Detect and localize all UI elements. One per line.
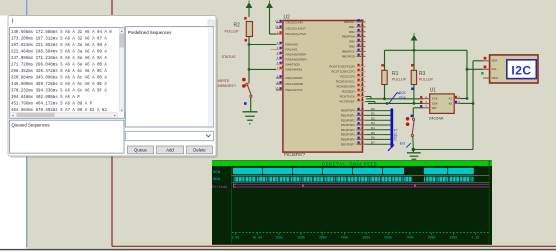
svg-text:24: 24 (361, 88, 365, 92)
svg-text:RD1/PSP1: RD1/PSP1 (341, 114, 355, 118)
svg-text:SCK: SCK (432, 97, 438, 101)
svg-text:SDA: SDA (492, 59, 498, 63)
svg-text:34: 34 (361, 23, 365, 27)
svg-text:RC5/SDO: RC5/SDO (342, 90, 356, 94)
svg-text:17: 17 (361, 73, 365, 77)
svg-text:RB4: RB4 (349, 40, 355, 44)
svg-text:RC4/SDI/SDA: RC4/SDI/SDA (337, 85, 355, 89)
svg-text:98.0m: 98.0m (253, 236, 263, 240)
svg-text:149.568ms 172.688ms S A6 A 32: 149.568ms 172.688ms S A6 A 32 A6 A 04 A … (11, 31, 112, 35)
svg-text:30: 30 (361, 141, 365, 145)
svg-text:RA3/AN3/VREF+: RA3/AN3/VREF+ (286, 58, 309, 62)
svg-text:RD0/PSP0: RD0/PSP0 (341, 109, 355, 113)
svg-text:D4: D4 (371, 126, 375, 130)
svg-text:26: 26 (361, 98, 365, 102)
svg-text:25: 25 (361, 93, 365, 97)
svg-text:Queue: Queue (134, 147, 148, 152)
svg-text:RA4/T0CKI: RA4/T0CKI (286, 63, 301, 67)
svg-text:▾: ▾ (121, 108, 123, 112)
svg-text:OSC2/CLKOUT: OSC2/CLKOUT (286, 26, 307, 30)
svg-text:598m: 598m (362, 236, 370, 240)
svg-text:698m: 698m (384, 236, 392, 240)
svg-text:16: 16 (361, 68, 365, 72)
svg-text:PD[0..7]: PD[0..7] (394, 129, 398, 141)
svg-text:Add: Add (166, 147, 174, 152)
svg-text:RD2/PSP2: RD2/PSP2 (341, 118, 355, 122)
svg-text:SCK: SCK (213, 171, 221, 175)
svg-text:RC0/T1OSO/T1CKI: RC0/T1OSO/T1CKI (329, 65, 355, 69)
svg-text:A2: A2 (448, 102, 452, 106)
svg-text:DIGITAL ANALYSIS: DIGITAL ANALYSIS (322, 161, 377, 167)
svg-text:39: 39 (361, 48, 365, 52)
svg-text:SCK: SCK (399, 91, 407, 95)
svg-text:RE1/AN6/WR: RE1/AN6/WR (286, 82, 304, 86)
svg-text:RB3/PGM: RB3/PGM (342, 35, 356, 39)
svg-text:Queued Sequences: Queued Sequences (12, 122, 50, 127)
svg-text:RD7/PSP7: RD7/PSP7 (341, 142, 355, 146)
svg-text:D1: D1 (371, 112, 375, 116)
svg-text:RE2/AN7/CS: RE2/AN7/CS (286, 88, 303, 92)
svg-text:40: 40 (361, 53, 365, 57)
svg-text:RD3/PSP3: RD3/PSP3 (341, 123, 355, 127)
svg-text:271.728ms 296.048ms S A6 A 6a: 271.728ms 296.048ms S A6 A 6a A6 A 0B A (11, 63, 107, 67)
svg-text:Delete: Delete (193, 147, 206, 152)
svg-text:RB0/INT: RB0/INT (344, 20, 355, 24)
svg-text:320.984ms 345.096ms S A6 A 6c: 320.984ms 345.096ms S A6 A 6c A6 A 0D A (11, 76, 107, 80)
svg-text:Ext: Ext (400, 142, 405, 146)
svg-text:RD5/PSP5: RD5/PSP5 (341, 133, 355, 137)
svg-text:36: 36 (361, 33, 365, 37)
svg-text:RD4/PSP4: RD4/PSP4 (341, 128, 355, 132)
svg-text:PULLUP: PULLUP (225, 30, 240, 34)
svg-text:1.10: 1.10 (471, 236, 479, 240)
svg-text:451.796ms 464.172ms S A6 A 08: 451.796ms 464.172ms S A6 A 08 A P (11, 102, 93, 106)
svg-text:RB5: RB5 (349, 45, 355, 49)
svg-text:R1: R1 (392, 71, 399, 77)
svg-text:198m: 198m (275, 236, 283, 240)
svg-text:D6: D6 (371, 136, 375, 140)
svg-text:15: 15 (361, 63, 365, 67)
svg-text:345.600ms 369.728ms S A6 A 6c: 345.600ms 369.728ms S A6 A 6c A6 A 0E A (11, 83, 107, 87)
svg-text:898m: 898m (428, 236, 436, 240)
svg-text:21: 21 (361, 117, 365, 121)
svg-text:MCLR/Vpp/THV: MCLR/Vpp/THV (286, 32, 307, 36)
svg-text:RB2: RB2 (349, 30, 355, 34)
svg-text:35: 35 (361, 28, 365, 32)
svg-text:RE0/AN5/RD: RE0/AN5/RD (286, 76, 303, 80)
svg-text:ErrCode: ErrCode (212, 185, 227, 190)
svg-text:22: 22 (361, 121, 365, 125)
svg-text:RA2/AN2/VREF-: RA2/AN2/VREF- (286, 53, 308, 57)
svg-text:298m: 298m (297, 236, 305, 240)
svg-text:222.464ms 246.584ms S A6 A 3a: 222.464ms 246.584ms S A6 A 3a A6 A 09 A (11, 50, 107, 54)
svg-text:PIC16F877: PIC16F877 (284, 152, 306, 157)
svg-text:TRIG: TRIG (492, 76, 499, 80)
svg-text:RB6/PGC: RB6/PGC (342, 50, 355, 54)
svg-text:D3: D3 (371, 121, 375, 125)
svg-text:10: 10 (275, 86, 279, 90)
svg-text:24C64A: 24C64A (429, 115, 444, 120)
svg-text:18: 18 (361, 78, 365, 82)
svg-text:798m: 798m (406, 236, 414, 240)
svg-text:▸: ▸ (114, 114, 116, 118)
svg-text:SDA: SDA (213, 178, 221, 182)
svg-text:RC7/RX/DT: RC7/RX/DT (340, 100, 355, 104)
svg-text:998m: 998m (450, 236, 458, 240)
svg-text:394.848ms 402.008ms S A6 A P: 394.848ms 402.008ms S A6 A P (11, 96, 80, 100)
svg-text:D0: D0 (371, 107, 375, 111)
svg-text:RA0/AN0: RA0/AN0 (286, 43, 298, 47)
svg-text:0.00: 0.00 (232, 236, 240, 240)
svg-text:▴: ▴ (121, 29, 123, 33)
svg-text:173.200ms 197.312ms S A6 A 32: 173.200ms 197.312ms S A6 A 32 A6 A 07 A (11, 37, 107, 41)
svg-text:247.096ms 271.216ms S A6 A 6a: 247.096ms 271.216ms S A6 A 6a A6 A 0A A (11, 57, 107, 61)
svg-text:498m: 498m (341, 236, 349, 240)
svg-text:28: 28 (361, 131, 365, 135)
svg-text:RA1/AN1: RA1/AN1 (286, 48, 298, 52)
svg-text:296.352ms 320.472ms S A6 A 6c: 296.352ms 320.472ms S A6 A 6c A6 A 0C A (11, 70, 107, 74)
svg-text:SCL: SCL (492, 67, 498, 71)
svg-text:RB1: RB1 (349, 25, 355, 29)
svg-text:RD6/PSP6: RD6/PSP6 (341, 138, 355, 142)
svg-text:STATUS: STATUS (222, 55, 237, 59)
svg-text:23: 23 (361, 83, 365, 87)
svg-text:PULLUP: PULLUP (419, 78, 434, 82)
svg-text:PULLUP: PULLUP (392, 78, 407, 82)
svg-text:398m: 398m (319, 236, 327, 240)
svg-text:27: 27 (361, 126, 365, 130)
svg-text:OSC1/CLKIN: OSC1/CLKIN (286, 21, 303, 25)
svg-text:I2C: I2C (511, 63, 531, 77)
svg-text:29: 29 (361, 136, 365, 140)
svg-text:D5: D5 (371, 131, 375, 135)
svg-text:37: 37 (361, 38, 365, 42)
svg-text:RC6/TX/CK: RC6/TX/CK (340, 95, 355, 99)
svg-text:D2: D2 (371, 116, 375, 120)
svg-text:RC2/CCP1: RC2/CCP1 (341, 75, 356, 79)
svg-text:RB7/PGD: RB7/PGD (342, 55, 355, 59)
svg-text:SDA: SDA (399, 96, 407, 100)
svg-text:U2: U2 (284, 15, 291, 21)
svg-text:R3: R3 (419, 71, 426, 77)
svg-text:38: 38 (361, 43, 365, 47)
svg-text:19: 19 (361, 107, 365, 111)
svg-text:D7: D7 (371, 140, 375, 144)
svg-text:RA5/AN4/SS: RA5/AN4/SS (286, 68, 303, 72)
svg-text:R2: R2 (234, 22, 241, 28)
svg-text:370.232ms 394.336ms S A6 A 6c: 370.232ms 394.336ms S A6 A 6c A6 A 0F A (11, 89, 107, 93)
svg-text:20: 20 (361, 112, 365, 116)
svg-text:U1: U1 (430, 88, 437, 94)
svg-text:13: 13 (275, 19, 279, 23)
svg-text:33: 33 (361, 18, 365, 22)
svg-text:Predefined Sequences: Predefined Sequences (128, 30, 171, 35)
svg-text:RC1/T1OSI/CCP2: RC1/T1OSI/CCP2 (331, 70, 355, 74)
svg-text:WP: WP (432, 106, 437, 110)
svg-text:MEMORY?: MEMORY? (218, 84, 237, 88)
svg-text:197.824ms 221.952ms S A6 A 3a: 197.824ms 221.952ms S A6 A 3a A6 A 08 A (11, 44, 107, 48)
svg-text:◂: ◂ (12, 114, 14, 118)
svg-text:A1: A1 (448, 97, 452, 101)
svg-text:RC3/SCK/SCL: RC3/SCK/SCL (336, 80, 355, 84)
svg-text:14: 14 (275, 25, 279, 29)
svg-text:WRITE: WRITE (218, 79, 230, 83)
